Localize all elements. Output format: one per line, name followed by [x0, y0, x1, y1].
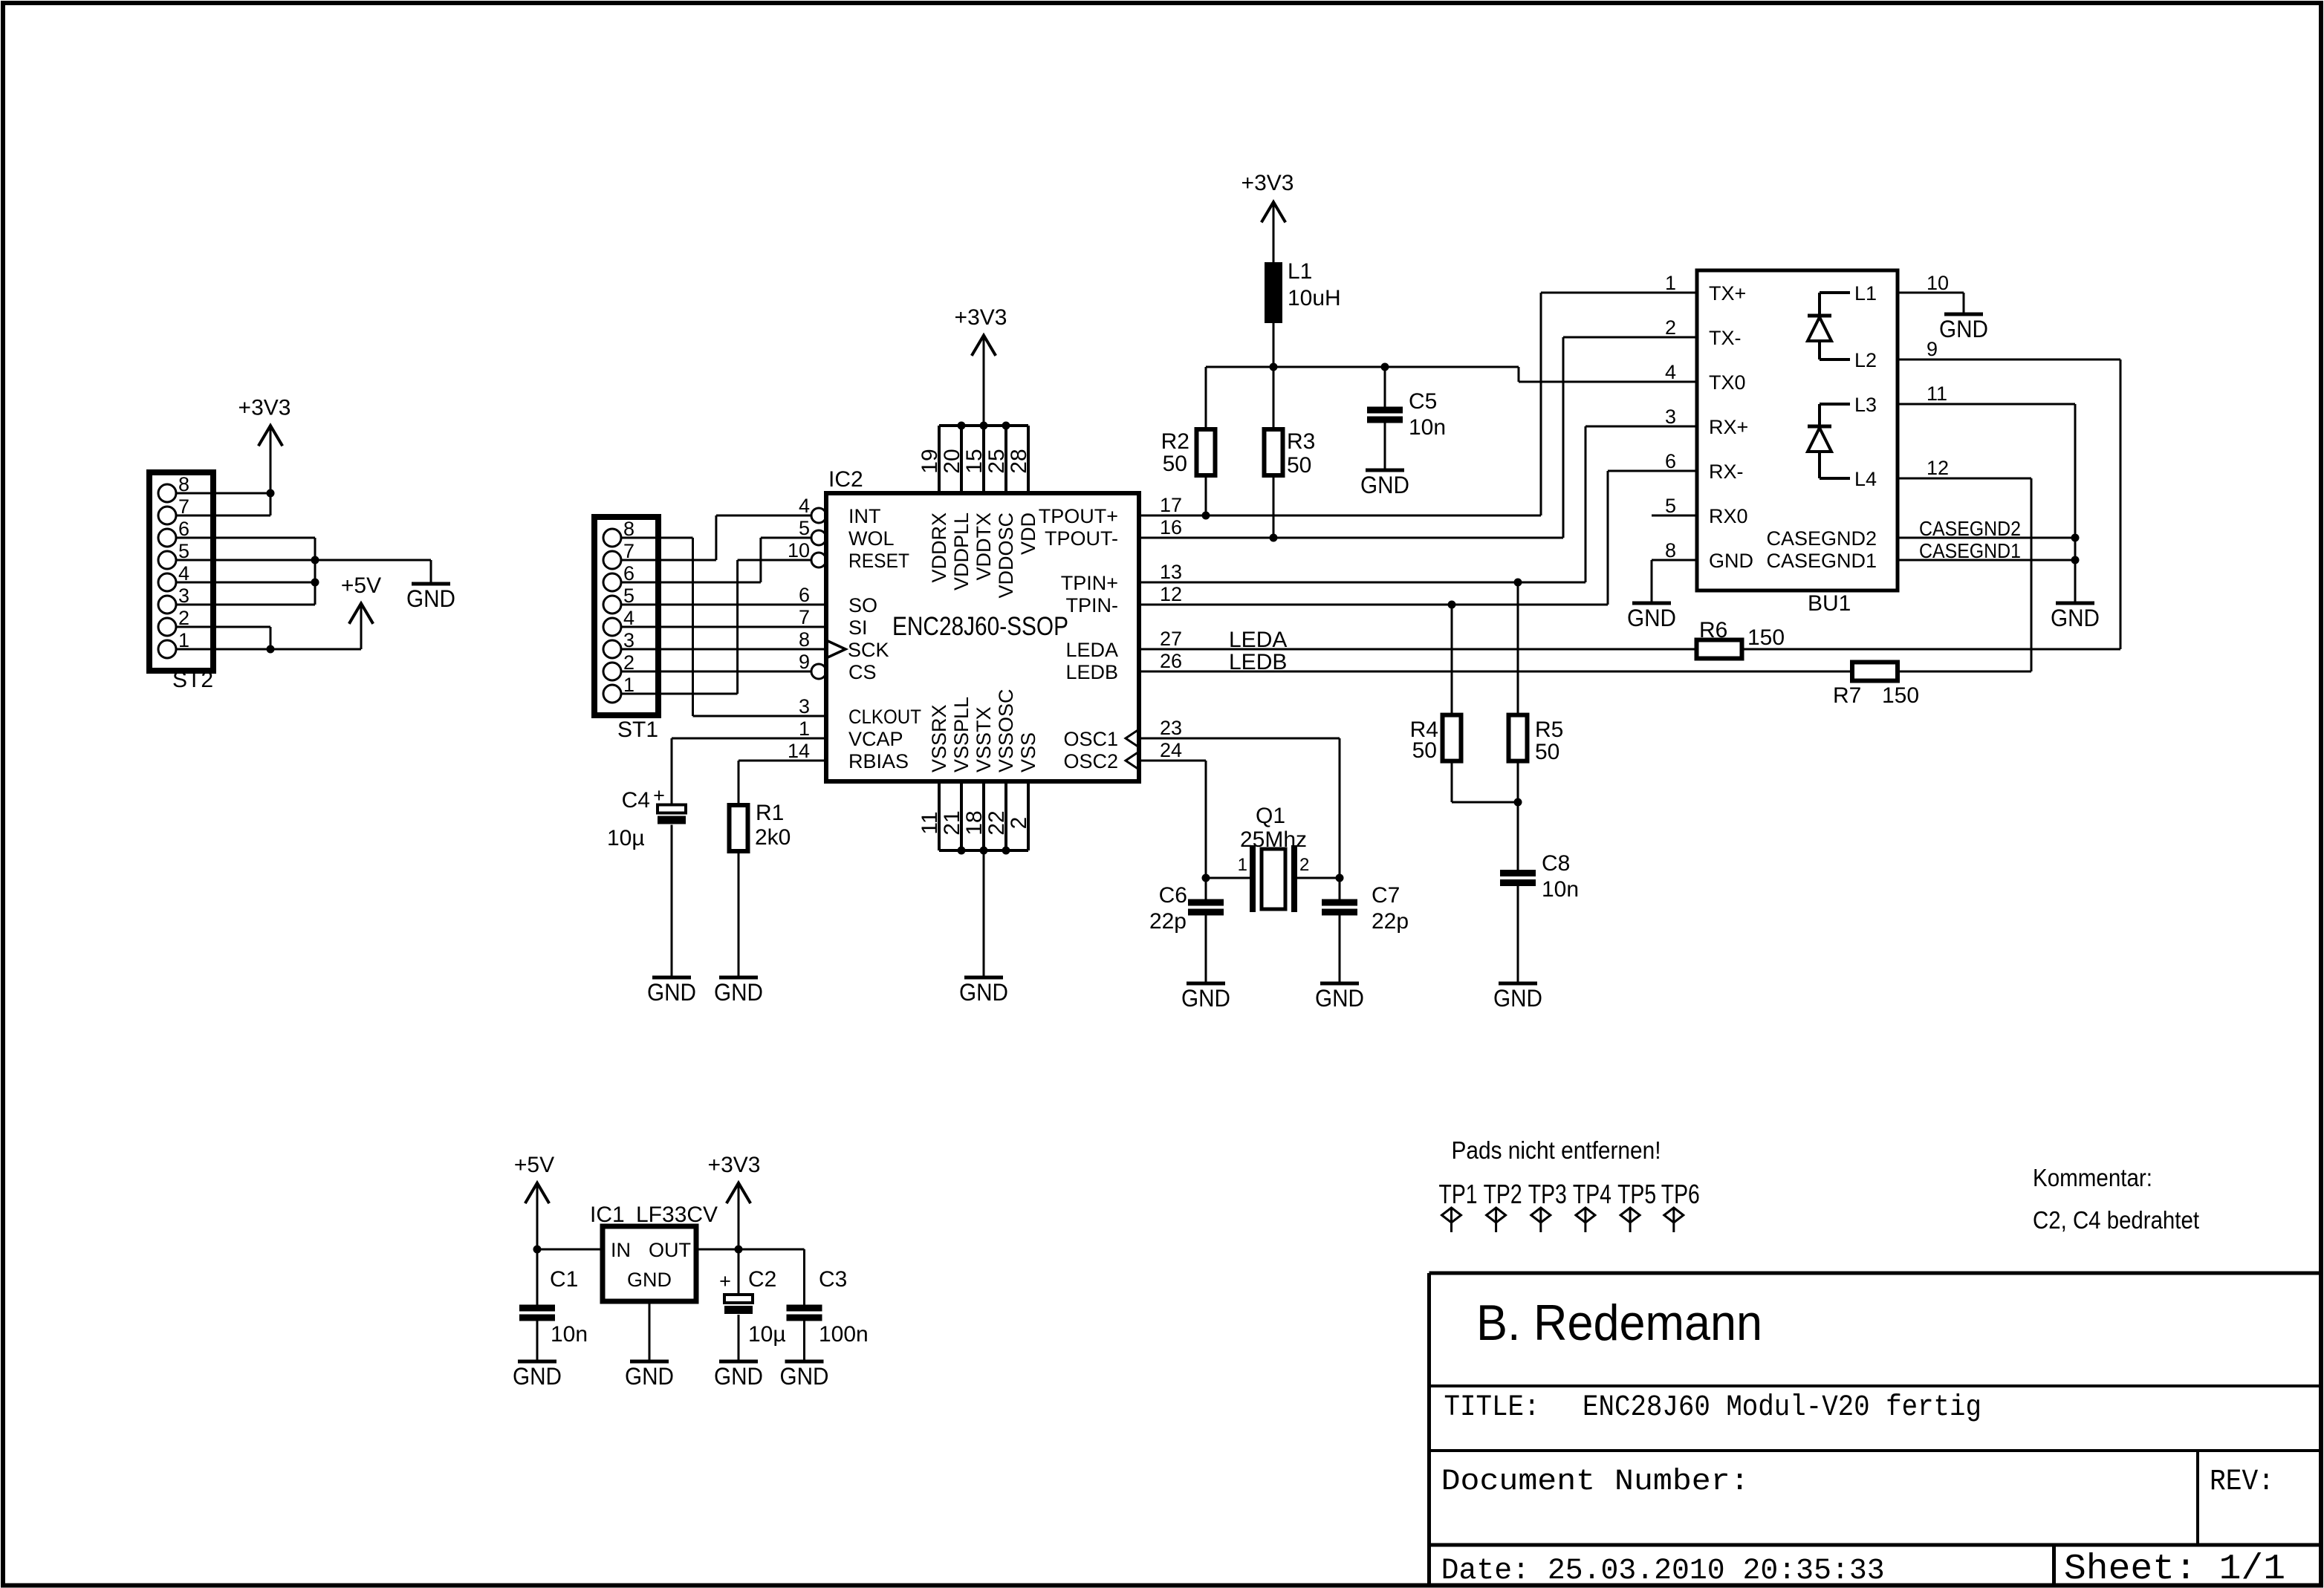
crystal Q1 25Mhz: [1250, 845, 1256, 912]
svg-text:VSSTX: VSSTX: [973, 706, 995, 772]
svg-text:R3: R3: [1287, 429, 1315, 454]
wire C5 top: [1384, 367, 1386, 407]
svg-text:TPOUT+: TPOUT+: [1039, 505, 1118, 527]
junction pin25: [1002, 422, 1010, 430]
svg-text:C1: C1: [550, 1267, 578, 1292]
resistor R2 50: [1205, 367, 1207, 429]
wire OSC2 net: [1139, 760, 1206, 762]
wire VCAP: [672, 738, 826, 740]
IC2 bottom ground stubs pins 11 21 18 22 2: [938, 781, 941, 850]
svg-text:VDD: VDD: [1017, 512, 1039, 555]
wire Q1 pin2: [1294, 877, 1340, 879]
wire R7 to pin12: [1898, 671, 2031, 673]
svg-text:R5: R5: [1535, 717, 1563, 742]
wire C4 to GND: [671, 825, 673, 976]
svg-text:OSC2: OSC2: [1063, 750, 1118, 772]
junction L1/R3: [1270, 363, 1278, 371]
svg-text:+3V3: +3V3: [238, 396, 291, 420]
wire TPOUT+ net (17 to TX+): [1139, 515, 1541, 517]
svg-text:VDDRX: VDDRX: [928, 512, 950, 583]
svg-text:R1: R1: [756, 801, 784, 825]
svg-text:LEDA: LEDA: [1065, 639, 1118, 661]
svg-text:10uH: 10uH: [1288, 286, 1341, 310]
wire C8 top: [1517, 802, 1519, 870]
wire ST1.8 to CLKOUT: [621, 537, 693, 539]
svg-text:GND: GND: [1315, 985, 1364, 1012]
ground GND (BU1 pin8): [1632, 602, 1671, 605]
svg-text:+5V: +5V: [514, 1153, 554, 1177]
svg-text:GND: GND: [714, 979, 763, 1006]
svg-text:C2, C4 bedrahtet: C2, C4 bedrahtet: [2033, 1206, 2199, 1234]
ground GND (IC1): [630, 1360, 669, 1364]
wire ST2 pin7: [176, 515, 270, 517]
svg-text:14: 14: [788, 740, 810, 762]
diode L1-L2 (TX): [1820, 291, 1850, 294]
svg-text:TP5: TP5: [1617, 1179, 1656, 1209]
svg-text:GND: GND: [2051, 605, 2100, 631]
svg-text:12: 12: [1927, 457, 1949, 479]
svg-text:C2: C2: [748, 1267, 776, 1292]
svg-text:8: 8: [799, 628, 810, 651]
wire C3 to GND: [803, 1321, 805, 1360]
junction Q1 pin1: [1202, 874, 1210, 882]
svg-text:C6: C6: [1159, 883, 1187, 908]
svg-text:+: +: [719, 1270, 731, 1292]
svg-text:B. Redemann: B. Redemann: [1476, 1295, 1762, 1351]
svg-text:LF33CV: LF33CV: [636, 1203, 718, 1227]
inversion bubble CS: [811, 664, 826, 679]
wire C3 top: [803, 1249, 805, 1305]
svg-text:GND: GND: [1939, 316, 1988, 342]
capacitor C3 100n: [787, 1305, 822, 1312]
wire R4 bottom: [1451, 761, 1453, 802]
svg-text:25Mhz: 25Mhz: [1240, 827, 1307, 852]
ground GND (IC2): [964, 976, 1003, 980]
power +3V3 (ST2): [259, 426, 282, 446]
svg-text:10n: 10n: [1542, 877, 1579, 902]
svg-text:4: 4: [799, 495, 810, 517]
capacitor C5 10n: [1367, 407, 1403, 414]
svg-text:6: 6: [1665, 450, 1676, 472]
wire R2 to TPOUT+: [1205, 475, 1207, 515]
wire IN: [537, 1249, 603, 1251]
svg-text:TP1: TP1: [1439, 1179, 1478, 1209]
wire ST2 pin1: [176, 648, 270, 651]
power +5V: [349, 603, 373, 623]
wire LEDA net: [1139, 648, 1697, 651]
svg-text:10n: 10n: [551, 1322, 588, 1347]
wire TPOUT- net (16 to TX-): [1139, 537, 1563, 539]
ground GND (C1): [518, 1360, 556, 1364]
svg-text:15: 15: [962, 449, 987, 473]
wire ST2 pin4: [176, 582, 315, 584]
svg-text:SCK: SCK: [848, 639, 889, 661]
svg-text:TP3: TP3: [1528, 1179, 1567, 1209]
junction ST2.1/+5V: [267, 645, 275, 654]
resistor R7 150: [1852, 663, 1898, 681]
svg-text:GND: GND: [1360, 472, 1409, 498]
svg-text:VSSPLL: VSSPLL: [950, 697, 973, 772]
svg-text:L2: L2: [1854, 349, 1877, 371]
svg-text:+5V: +5V: [341, 573, 381, 598]
connector ST1: [594, 517, 658, 715]
svg-text:R6: R6: [1699, 618, 1727, 642]
inversion bubble RESET: [811, 553, 826, 567]
svg-text:C3: C3: [819, 1267, 847, 1292]
svg-text:SI: SI: [848, 616, 868, 639]
wire C7 to GND: [1339, 916, 1341, 982]
svg-text:VSSOSC: VSSOSC: [995, 689, 1017, 772]
junction +3V3/ST2.8: [267, 489, 275, 498]
svg-text:CASEGND2: CASEGND2: [1766, 527, 1877, 550]
wire R1 to GND: [738, 851, 740, 976]
svg-text:C8: C8: [1542, 851, 1570, 876]
ground GND (C4): [652, 976, 691, 980]
wire +5V stem: [360, 603, 363, 649]
wire CASEGND2: [1898, 537, 2075, 539]
svg-text:10: 10: [788, 539, 810, 562]
inversion bubble INT: [811, 508, 826, 523]
svg-text:TPIN+: TPIN+: [1061, 572, 1118, 594]
clock symbol SCK: [826, 640, 845, 658]
junction OUT/+3V3/C2: [735, 1246, 743, 1254]
svg-text:L4: L4: [1854, 468, 1877, 490]
svg-text:TP6: TP6: [1661, 1179, 1700, 1209]
clock symbol OSC2: [1126, 752, 1139, 769]
wire IC2 bottom ground bus: [939, 849, 1028, 852]
connector ST2: [149, 472, 213, 671]
clock symbol OSC1: [1126, 729, 1139, 747]
IC U/IC2 ENC28J60-SSOP box: [826, 493, 1139, 781]
wire bus step to TX0: [1518, 367, 1520, 382]
svg-text:INT: INT: [848, 505, 881, 527]
svg-text:3: 3: [799, 695, 810, 717]
power +3V3 (IC2): [972, 336, 996, 356]
svg-text:GND: GND: [780, 1363, 829, 1390]
svg-text:VCAP: VCAP: [848, 728, 903, 750]
svg-text:Kommentar:: Kommentar:: [2033, 1164, 2152, 1191]
svg-text:19: 19: [918, 449, 942, 473]
svg-text:Date: 25.03.2010 20:35:33: Date: 25.03.2010 20:35:33: [1441, 1555, 1885, 1588]
wire IC2 ground stem: [983, 850, 985, 976]
svg-text:RBIAS: RBIAS: [848, 750, 909, 772]
svg-text:RX0: RX0: [1709, 505, 1748, 527]
wire R6 to pin9: [1742, 648, 2121, 651]
wire CASEGND1: [1898, 559, 2075, 562]
svg-text:RX-: RX-: [1709, 461, 1744, 483]
svg-text:WOL: WOL: [848, 527, 895, 550]
wire Q1 pin1: [1206, 877, 1253, 879]
svg-text:Q1: Q1: [1256, 804, 1285, 828]
svg-text:GND: GND: [959, 979, 1008, 1006]
wire ST2 pin6: [176, 537, 315, 539]
capacitor C1 10n: [536, 1249, 539, 1305]
svg-text:GND: GND: [714, 1363, 763, 1390]
junction Q1 pin2: [1336, 874, 1344, 882]
svg-text:OSC1: OSC1: [1063, 728, 1118, 750]
wire L1 to bus: [1273, 323, 1275, 367]
wire LEDB net: [1139, 671, 1852, 673]
ground GND (C5): [1366, 469, 1404, 472]
wire C1 to GND: [536, 1321, 539, 1360]
wire BU1 pin11 to GND: [1898, 403, 2075, 406]
svg-text:+: +: [653, 784, 665, 807]
svg-text:50: 50: [1412, 738, 1437, 763]
svg-text:R2: R2: [1161, 429, 1189, 454]
ground GND (C2): [719, 1360, 758, 1364]
svg-text:TX+: TX+: [1709, 282, 1746, 305]
svg-text:23: 23: [1160, 717, 1182, 739]
wire +3V3 stem IC2: [983, 336, 985, 426]
svg-text:27: 27: [1160, 628, 1182, 650]
junction R3/TPOUT-: [1270, 534, 1278, 542]
wire ST1.2 to CS: [621, 671, 811, 673]
svg-text:ENC28J60 Modul-V20 fertig: ENC28J60 Modul-V20 fertig: [1583, 1391, 1981, 1425]
diode L3-L4 (RX): [1820, 403, 1850, 406]
wire +3V3 stem ST2: [270, 426, 272, 515]
svg-text:3: 3: [1665, 406, 1676, 428]
svg-text:Pads nicht entfernen!: Pads nicht entfernen!: [1452, 1136, 1661, 1164]
svg-text:1: 1: [1238, 855, 1247, 875]
svg-text:CASEGND2: CASEGND2: [1919, 517, 2021, 540]
svg-text:GND: GND: [406, 585, 455, 612]
svg-text:22p: 22p: [1149, 909, 1187, 934]
capacitor C2 10u: [738, 1249, 740, 1295]
svg-text:24: 24: [1160, 739, 1182, 761]
svg-text:LEDA: LEDA: [1229, 628, 1287, 652]
wire +3V3 to L1: [1273, 202, 1275, 262]
wire ST2 gnd bus vertical: [314, 538, 317, 605]
svg-text:GND: GND: [1709, 550, 1753, 572]
svg-text:TX-: TX-: [1709, 327, 1742, 349]
svg-text:+3V3: +3V3: [955, 305, 1007, 330]
power +3V3 (L1): [1262, 202, 1285, 222]
svg-text:6: 6: [799, 584, 810, 606]
wire ST1.3 to SCK: [621, 648, 826, 651]
svg-text:2: 2: [1665, 316, 1676, 339]
junction C5: [1381, 363, 1389, 371]
svg-text:11: 11: [918, 811, 942, 834]
resistor R1: [730, 805, 748, 851]
svg-text:CS: CS: [848, 661, 877, 683]
svg-text:VSSRX: VSSRX: [928, 704, 950, 772]
svg-text:Sheet: 1/1: Sheet: 1/1: [2064, 1549, 2285, 1588]
capacitor C8 10n: [1500, 870, 1536, 876]
svg-text:10n: 10n: [1409, 415, 1446, 440]
svg-text:100n: 100n: [819, 1322, 869, 1347]
svg-text:ENC28J60-SSOP: ENC28J60-SSOP: [892, 612, 1068, 641]
junction R2/TPOUT+: [1202, 512, 1210, 520]
wire +5V horizontal: [270, 648, 361, 651]
inductor L1 10uH: [1265, 262, 1282, 323]
svg-text:TX0: TX0: [1709, 371, 1746, 394]
svg-text:GND: GND: [1493, 985, 1542, 1012]
svg-text:C5: C5: [1409, 389, 1437, 414]
wire ST1.4 to SI: [621, 626, 826, 628]
wire BU1 pin8 GND: [1652, 559, 1697, 562]
junction ST2.5: [311, 556, 319, 564]
svg-text:4: 4: [1665, 361, 1676, 383]
svg-text:TPOUT-: TPOUT-: [1045, 527, 1118, 550]
junction R4/TPIN-: [1448, 601, 1456, 609]
junction C1/IN: [533, 1246, 542, 1254]
svg-text:26: 26: [1160, 650, 1182, 672]
wire ST2 +5V vertical: [270, 627, 272, 649]
svg-text:+3V3: +3V3: [708, 1153, 761, 1177]
wire OSC1 net: [1139, 738, 1340, 740]
regulator IC1 LF33CV box: [603, 1226, 696, 1301]
wire C5 to GND: [1384, 423, 1386, 469]
svg-text:17: 17: [1160, 494, 1182, 516]
wire ST1.7 to INT: [621, 559, 716, 562]
resistor R5 50: [1517, 582, 1519, 715]
svg-text:50: 50: [1287, 453, 1311, 478]
ground GND (ST2): [412, 582, 450, 586]
junction ST2.4: [311, 579, 319, 587]
junction pin21: [958, 847, 966, 855]
svg-text:13: 13: [1160, 561, 1182, 583]
junction pin22: [1002, 847, 1010, 855]
resistor R3 50: [1273, 367, 1275, 429]
svg-text:IN: IN: [611, 1239, 631, 1261]
wire C8 to GND: [1517, 886, 1519, 982]
svg-text:ST2: ST2: [172, 668, 213, 692]
wire +5V stem IC1: [536, 1183, 539, 1249]
ground GND (R1): [719, 976, 758, 980]
IC2 top power stubs pins 19 20 15 25 28: [938, 426, 941, 493]
wire ST2 gnd horizontal: [315, 559, 431, 562]
wire BU1 pin10 to GND: [1898, 292, 1964, 294]
svg-text:GND: GND: [625, 1363, 674, 1390]
wire R5 bottom: [1517, 761, 1519, 802]
svg-text:CLKOUT: CLKOUT: [848, 706, 921, 728]
wire RBIAS: [739, 760, 826, 762]
wire +3V3 stem IC1: [738, 1183, 740, 1249]
wire C6 to GND: [1205, 916, 1207, 982]
svg-text:VDDPLL: VDDPLL: [950, 512, 973, 590]
wire TPIN+ net (13 to RX+): [1139, 582, 1585, 584]
svg-text:OUT: OUT: [649, 1239, 691, 1261]
junction R5/TPIN+: [1514, 579, 1522, 587]
svg-text:GND: GND: [1181, 985, 1230, 1012]
ground GND (C3): [785, 1360, 824, 1364]
junction pin15: [980, 422, 988, 430]
power +3V3 (IC1): [727, 1183, 750, 1203]
wire ST1.5 to SO: [621, 604, 826, 606]
svg-text:21: 21: [940, 810, 964, 835]
svg-text:TP4: TP4: [1573, 1179, 1611, 1209]
wire 3V3 filter bus: [1206, 366, 1519, 368]
svg-text:50: 50: [1163, 452, 1187, 476]
power +5V (IC1): [525, 1183, 549, 1203]
svg-text:IC1: IC1: [590, 1203, 625, 1227]
svg-text:22p: 22p: [1372, 909, 1409, 934]
svg-text:TPIN-: TPIN-: [1066, 594, 1119, 616]
ground GND (BU1 pin10): [1944, 313, 1983, 316]
svg-text:2: 2: [1007, 817, 1031, 830]
wire ST1.1 to RESET: [621, 693, 738, 695]
svg-text:GND: GND: [627, 1269, 672, 1291]
svg-text:CASEGND1: CASEGND1: [1919, 539, 2021, 562]
junction CASEGND2: [2071, 534, 2080, 542]
wire IC1 GND pin: [649, 1301, 651, 1360]
svg-text:5: 5: [1665, 495, 1676, 517]
junction pin18: [980, 847, 988, 855]
svg-text:L1: L1: [1288, 259, 1312, 284]
svg-text:2k0: 2k0: [755, 825, 791, 850]
svg-text:2: 2: [1299, 855, 1309, 875]
capacitor C6 22p: [1205, 878, 1207, 899]
svg-text:GND: GND: [647, 979, 696, 1006]
svg-text:20: 20: [940, 449, 964, 473]
wire ST2 pin8 to +3V3: [176, 492, 270, 495]
junction R4/R5/C8: [1514, 798, 1522, 807]
svg-text:IC2: IC2: [828, 467, 863, 492]
svg-text:C4: C4: [622, 788, 650, 813]
svg-text:GND: GND: [513, 1363, 562, 1390]
svg-text:1: 1: [1665, 272, 1676, 294]
connector BU1 box: [1697, 270, 1898, 590]
wire ST2 pin5: [176, 559, 315, 562]
wire TPIN- net (12 to RX-): [1139, 604, 1608, 606]
svg-text:L1: L1: [1854, 282, 1877, 305]
resistor R6 150: [1697, 640, 1742, 659]
svg-text:RESET: RESET: [848, 550, 909, 572]
svg-text:GND: GND: [1627, 605, 1676, 631]
wire ST2 pin2: [176, 626, 270, 628]
resistor R4 50: [1451, 605, 1453, 715]
ground GND (CASEGND): [2056, 602, 2094, 605]
svg-text:ST1: ST1: [617, 717, 658, 742]
svg-text:150: 150: [1882, 683, 1919, 708]
capacitor C4: [658, 805, 686, 813]
wire ST2 pin3: [176, 604, 315, 606]
svg-text:10µ: 10µ: [748, 1322, 786, 1347]
svg-text:VSS: VSS: [1017, 732, 1039, 772]
wire ST2 gnd drop: [430, 560, 432, 582]
ground GND (C8): [1499, 982, 1537, 986]
wire C2 to GND: [738, 1315, 740, 1360]
svg-text:Document Number:: Document Number:: [1441, 1465, 1750, 1499]
svg-text:25: 25: [984, 449, 1009, 473]
svg-text:50: 50: [1535, 740, 1559, 764]
svg-text:9: 9: [1927, 338, 1938, 360]
svg-text:RX+: RX+: [1709, 416, 1748, 438]
svg-text:18: 18: [962, 810, 987, 835]
ground GND (C7): [1320, 982, 1359, 986]
svg-text:1: 1: [799, 717, 810, 740]
ground GND (C6): [1187, 982, 1225, 986]
junction CASEGND1: [2071, 556, 2080, 564]
junction pin20: [958, 422, 966, 430]
svg-text:TITLE:: TITLE:: [1444, 1391, 1540, 1425]
svg-text:VDDOSC: VDDOSC: [995, 512, 1017, 599]
svg-text:16: 16: [1160, 516, 1182, 538]
svg-text:CASEGND1: CASEGND1: [1766, 550, 1877, 572]
inversion bubble WOL: [811, 530, 826, 545]
capacitor C7 22p: [1339, 878, 1341, 899]
wire BU1 pin9: [1898, 359, 2120, 361]
wire BU1 pin12: [1898, 478, 2031, 480]
svg-text:9: 9: [799, 651, 810, 673]
svg-text:22: 22: [984, 810, 1009, 835]
svg-text:11: 11: [1927, 383, 1947, 405]
wire IC2 top power bus: [939, 424, 1028, 427]
wire BU1 pin5 stub: [1652, 515, 1697, 517]
svg-text:R7: R7: [1833, 683, 1861, 708]
svg-text:SO: SO: [848, 594, 877, 616]
svg-text:10: 10: [1927, 272, 1949, 294]
